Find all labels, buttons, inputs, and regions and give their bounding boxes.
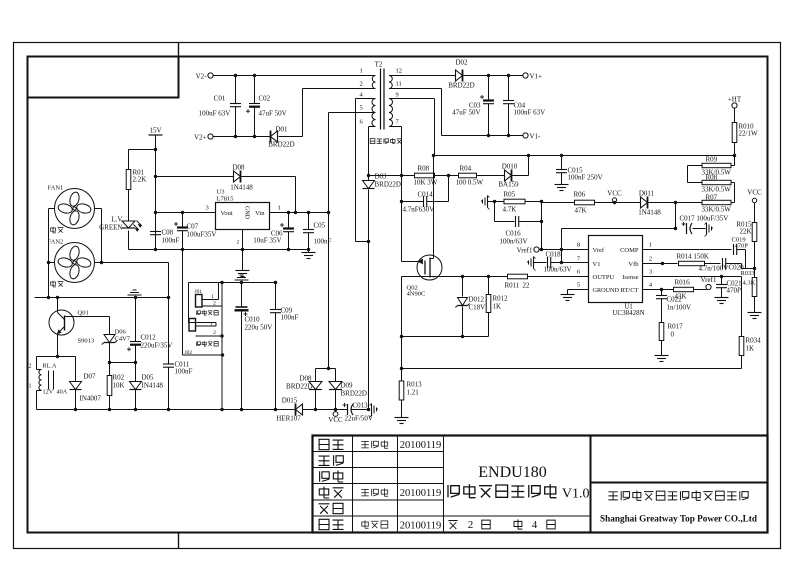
svg-text:D02: D02 (455, 59, 468, 67)
svg-text:1: 1 (360, 68, 363, 75)
svg-text:100n/63V: 100n/63V (544, 266, 572, 274)
regulator U3 L7815 (216, 203, 270, 230)
wire source row (402, 276, 508, 278)
capacitor C016 (494, 202, 496, 222)
wire T2 pin6 to D03 (369, 126, 376, 128)
svg-text:33K/0.5W: 33K/0.5W (702, 206, 732, 214)
wire V1 pin7 (562, 262, 589, 264)
title 开关电源原理图 (448, 485, 459, 497)
ground U1 pin5 (561, 294, 575, 296)
title block table (313, 436, 768, 533)
svg-text:IN4148: IN4148 (142, 382, 164, 390)
terminal Vref1 left (534, 247, 539, 252)
svg-text:COMP: COMP (620, 247, 639, 254)
terminal VCC mid (595, 202, 641, 204)
svg-text:1: 1 (29, 384, 32, 390)
svg-text:100nF 250V: 100nF 250V (568, 174, 603, 182)
svg-text:FAN1: FAN1 (48, 185, 64, 192)
zener D06 (109, 317, 111, 335)
J01 enclosure (188, 283, 190, 323)
svg-text:V1+: V1+ (530, 73, 543, 81)
svg-text:1N4148: 1N4148 (638, 209, 661, 217)
resistor R016 (674, 287, 694, 291)
svg-text:Isense: Isense (622, 274, 638, 281)
title row label 校对 (320, 471, 330, 481)
wire rail-249 to J-socket bypass (182, 250, 184, 356)
terminal V1- (523, 133, 528, 138)
wire Isense row (643, 276, 742, 278)
title row label 标化 (319, 504, 330, 514)
capacitor C017 (675, 203, 677, 229)
svg-text:C07: C07 (187, 223, 199, 231)
svg-text:D03: D03 (375, 173, 388, 181)
svg-text:C012: C012 (141, 334, 157, 342)
svg-text:47uF 50V: 47uF 50V (452, 109, 480, 117)
ground C05 (302, 252, 316, 254)
capacitor C02 (254, 76, 256, 104)
op-amp U1 UC38428N (589, 236, 643, 303)
svg-text:D07: D07 (84, 373, 97, 381)
svg-text:100nF 63V: 100nF 63V (199, 110, 231, 118)
svg-text:R016: R016 (675, 279, 691, 287)
resistor R09 (702, 163, 731, 167)
svg-text:BRD22D: BRD22D (286, 383, 312, 391)
title row label 批准 (319, 519, 329, 529)
ground R017 (655, 355, 669, 357)
svg-text:1K: 1K (493, 303, 502, 311)
wire D01 to T2 pin2 (279, 136, 303, 138)
svg-text:2: 2 (213, 301, 216, 307)
wire V2- to T2 pin1 (214, 75, 376, 77)
svg-text:4.7nF630V: 4.7nF630V (403, 206, 435, 214)
LED L.V GREEN (128, 190, 130, 222)
capacitor C020 (705, 263, 721, 265)
wire zigzag chain (688, 165, 703, 167)
svg-text:2: 2 (649, 256, 652, 263)
label 风扇 FAN2 (51, 281, 56, 287)
ground U3 (236, 270, 250, 272)
resistor R01 (129, 149, 156, 151)
svg-text:D01: D01 (275, 126, 288, 134)
svg-text:Q01: Q01 (78, 310, 89, 317)
svg-text:C18V: C18V (469, 304, 486, 312)
svg-text:R05: R05 (504, 191, 516, 199)
svg-text:D015: D015 (282, 397, 298, 405)
wire node (110, 362, 136, 364)
svg-text:12: 12 (396, 68, 403, 75)
svg-text:10K: 10K (113, 382, 125, 390)
svg-text:J01: J01 (195, 289, 203, 295)
diode D010 (477, 175, 505, 177)
svg-text:20100119: 20100119 (400, 488, 442, 499)
svg-text:D06: D06 (115, 329, 127, 336)
svg-text:9: 9 (396, 92, 399, 99)
页 (547, 520, 555, 529)
svg-text:C013: C013 (353, 402, 369, 410)
svg-text:20100119: 20100119 (400, 521, 442, 532)
wire Vref to pin8 (539, 249, 589, 251)
resistor R015 (754, 203, 756, 222)
wire gate (401, 176, 403, 262)
svg-text:S9013: S9013 (78, 338, 95, 345)
wire V2+ to D01 (214, 136, 271, 138)
svg-text:C017 100uF/35V: C017 100uF/35V (680, 215, 729, 223)
wire Vfb row (643, 263, 678, 265)
svg-text:2.2K: 2.2K (133, 176, 147, 184)
wire Vout row (156, 212, 216, 214)
svg-text:100uF35V: 100uF35V (187, 231, 217, 239)
svg-text:5: 5 (360, 105, 363, 112)
svg-text:BA159: BA159 (498, 181, 519, 189)
svg-text:4.7n/100V: 4.7n/100V (699, 265, 729, 273)
wire COMP row (643, 249, 732, 251)
svg-text:ENDU180: ENDU180 (478, 464, 546, 481)
svg-text:22/1W: 22/1W (739, 130, 758, 138)
svg-text:C016: C016 (506, 230, 522, 238)
diode D015 (296, 404, 303, 415)
svg-text:R06: R06 (574, 191, 586, 199)
svg-text:D08: D08 (232, 164, 245, 172)
svg-text:R08: R08 (418, 165, 430, 173)
terminal V2- (208, 73, 213, 78)
diode D08 1N4148 (156, 176, 234, 178)
wire bottom rail (37, 409, 295, 411)
capacitor C04 (508, 76, 510, 101)
svg-text:GROUND: GROUND (593, 287, 620, 294)
wire pin5 ground (568, 289, 589, 291)
svg-text:BRD22D: BRD22D (375, 181, 401, 189)
svg-text:C010: C010 (245, 316, 261, 324)
capacitor C05 (308, 213, 310, 230)
svg-text:VCC: VCC (747, 189, 762, 197)
svg-text:D012: D012 (469, 296, 485, 304)
svg-text:100nF 63V: 100nF 63V (514, 109, 546, 117)
chassis symbol C013 (371, 404, 373, 416)
svg-text:100 0.5W: 100 0.5W (456, 179, 484, 187)
wire bottom rail of regulator (129, 249, 309, 251)
svg-text:1: 1 (649, 242, 652, 249)
wire pin7 down to R08 node (389, 126, 402, 128)
chassis symbol C018 left (533, 257, 535, 269)
transistor Q02 MOSFET (417, 255, 442, 280)
svg-text:100nF: 100nF (175, 368, 193, 376)
svg-text:8: 8 (577, 242, 580, 249)
svg-text:1: 1 (278, 205, 281, 212)
chassis symbol R05 left (487, 196, 489, 208)
resistor R010 (734, 109, 736, 123)
svg-text:0: 0 (671, 331, 675, 339)
svg-text:R02: R02 (113, 374, 125, 382)
svg-text:Vref1: Vref1 (517, 247, 533, 255)
svg-text:3: 3 (649, 269, 652, 276)
svg-text:2: 2 (29, 364, 32, 370)
svg-text:V1.0: V1.0 (562, 487, 590, 502)
svg-text:R07: R07 (706, 194, 718, 202)
capacitor C012 (135, 298, 137, 342)
wire (435, 175, 459, 177)
wire T2 pin4 (356, 98, 376, 100)
terminal VCC bottom (335, 410, 337, 412)
svg-text:Shanghai Greatway Top Power CO: Shanghai Greatway Top Power CO.,Ltd (600, 514, 757, 524)
resistor R034 (739, 337, 744, 356)
wire fan right rail (95, 208, 102, 210)
node to divider (741, 264, 743, 269)
svg-text:L.V: L.V (111, 216, 122, 224)
connector J02 (189, 319, 196, 332)
svg-text:100nF: 100nF (314, 238, 332, 246)
chassis symbol C017 right (706, 223, 708, 235)
svg-text:T2: T2 (375, 61, 383, 69)
capacitor C010 (241, 283, 243, 307)
wire HV bus (435, 155, 735, 157)
wire Isense to R034 (741, 277, 743, 337)
wire long sense return y=368 (402, 368, 742, 370)
svg-text:1: 1 (211, 294, 214, 300)
svg-text:V1-: V1- (530, 133, 542, 141)
capacitor C022 (661, 290, 663, 296)
capacitor C018 (534, 262, 547, 264)
svg-text:J02: J02 (185, 350, 193, 356)
inner border frame (28, 57, 768, 533)
resistor R011 (508, 274, 528, 279)
label 风扇插座 J01 (196, 311, 200, 315)
svg-text:2: 2 (213, 330, 216, 336)
resistor R07 (702, 200, 731, 204)
svg-text:Vin: Vin (255, 210, 265, 217)
svg-text:GND: GND (244, 206, 250, 220)
terminal V1+ (523, 73, 528, 78)
svg-text:R09: R09 (706, 156, 718, 164)
svg-text:470P: 470P (735, 243, 749, 250)
svg-text:V2-: V2- (196, 73, 208, 81)
wire 15V rail (155, 135, 157, 250)
resistor R012 (488, 277, 490, 295)
svg-text:BRD22D: BRD22D (448, 82, 474, 90)
wire C010 rail (189, 282, 276, 284)
svg-text:470P: 470P (727, 287, 742, 295)
wire fan to J01 (95, 262, 169, 264)
title row label 审核 (319, 487, 329, 499)
svg-text:D05: D05 (142, 374, 155, 382)
svg-text:100n/63V: 100n/63V (500, 238, 528, 246)
页 (482, 520, 490, 529)
svg-text:220u 50V: 220u 50V (245, 324, 273, 332)
svg-text:D010: D010 (502, 163, 518, 171)
capacitor C019 (733, 244, 735, 255)
svg-text:220uF/35V: 220uF/35V (141, 342, 173, 350)
wire T2 pin5 (329, 112, 376, 114)
wire Q01 base (65, 316, 110, 318)
diode D011 (641, 197, 648, 208)
name 刘纪周 row1 (361, 441, 369, 448)
共 (514, 519, 522, 529)
svg-text:V1: V1 (593, 261, 601, 268)
svg-text:2: 2 (468, 519, 474, 531)
ground C021 (715, 297, 729, 299)
zener D012 (462, 277, 464, 297)
svg-text:RL.A: RL.A (43, 363, 57, 370)
svg-text:C05: C05 (314, 222, 326, 230)
top-left reference box (28, 57, 179, 98)
capacitor C07 (182, 213, 184, 228)
svg-text:R013: R013 (407, 381, 423, 389)
wire pin11 to V1- (389, 88, 442, 90)
svg-text:R011: R011 (505, 282, 520, 290)
svg-text:100nF: 100nF (162, 237, 180, 245)
svg-text:VCC: VCC (607, 190, 622, 198)
svg-text:1K: 1K (746, 345, 755, 353)
transistor Q01 (49, 310, 74, 335)
svg-text:4: 4 (532, 519, 538, 531)
resistor R033 (752, 278, 757, 297)
svg-text:20100119: 20100119 (400, 440, 442, 451)
title row label 设计 (319, 439, 329, 449)
ground R013 (395, 417, 409, 419)
capacitor C011 (168, 298, 170, 364)
diode D02 (456, 70, 463, 81)
frame tick bottom (178, 533, 180, 549)
svg-text:GREEN: GREEN (99, 224, 122, 232)
svg-text:R034: R034 (746, 337, 762, 345)
svg-text:12V: 12V (43, 389, 54, 396)
wire sense row y=336 (402, 336, 489, 338)
capacitor C03 (488, 76, 490, 101)
svg-text:22: 22 (523, 282, 531, 290)
svg-text:22uF/50V: 22uF/50V (345, 415, 373, 423)
wire RT/CT row (643, 289, 674, 291)
svg-text:C01: C01 (214, 95, 226, 103)
svg-text:FAN2: FAN2 (48, 239, 64, 246)
svg-text:33K/0.5W: 33K/0.5W (702, 169, 732, 177)
svg-text:33K/0.5W: 33K/0.5W (702, 186, 732, 194)
resistor R05 (488, 201, 504, 203)
svg-text:D011: D011 (639, 190, 655, 198)
wire pin12 to D02 (389, 75, 456, 77)
wire C017 riser (561, 229, 563, 263)
svg-text:R012: R012 (493, 295, 509, 303)
resistor R014 (679, 261, 705, 265)
resistor R017 (659, 323, 664, 341)
label 风扇 FAN1 (51, 227, 56, 233)
resistor R02 (107, 376, 112, 396)
label 风扇插座 J02 (196, 342, 200, 346)
svg-text:10K 3W: 10K 3W (414, 179, 438, 187)
terminal V2+ (208, 134, 213, 139)
svg-text:1n/100V: 1n/100V (667, 304, 692, 312)
svg-text:11: 11 (396, 81, 402, 88)
capacitor C08 (150, 231, 161, 233)
resistor R04 (459, 173, 477, 178)
wire rail B (35, 297, 169, 299)
第 (448, 521, 457, 529)
svg-text:22K: 22K (739, 228, 751, 236)
svg-text:Vref: Vref (593, 247, 605, 254)
ground C015 (555, 184, 569, 186)
fan FAN1 (55, 189, 95, 229)
capacitor C021 (721, 277, 723, 285)
wire pin9 to bus (389, 98, 435, 100)
svg-text:2: 2 (360, 81, 363, 88)
capacitor C014 (400, 200, 403, 203)
svg-text:15V: 15V (149, 127, 161, 135)
svg-text:L7815: L7815 (217, 196, 234, 203)
svg-text:D08: D08 (299, 375, 312, 383)
svg-text:BRD22D: BRD22D (268, 141, 294, 149)
svg-text:C022: C022 (667, 296, 683, 304)
svg-text:OUTPU: OUTPU (593, 274, 615, 281)
wire Vin row (270, 212, 329, 214)
svg-text:V2+: V2+ (194, 134, 207, 142)
diodes D08 D09 pair (327, 367, 330, 370)
capacitor C06 (288, 213, 290, 229)
diode D01 (271, 131, 278, 142)
capacitor C015 (561, 156, 563, 170)
relay RL.A (37, 356, 76, 358)
svg-text:47uF 50V: 47uF 50V (259, 110, 287, 118)
fan FAN2 (55, 243, 95, 283)
wire fan left rail (49, 208, 55, 210)
diode D07 (75, 357, 77, 382)
svg-text:4N90C: 4N90C (407, 291, 426, 298)
svg-text:4.7K: 4.7K (503, 206, 517, 214)
resistor R08 (400, 174, 403, 177)
label 辅助变压器 (370, 139, 375, 144)
chassis ground C010 rail (240, 274, 244, 276)
capacitor C01 (235, 76, 237, 104)
svg-text:3: 3 (206, 205, 209, 212)
diode D05 (130, 382, 142, 390)
svg-text:2: 2 (237, 240, 240, 246)
svg-text:D09: D09 (341, 382, 354, 390)
diode D03 (363, 181, 375, 189)
svg-text:Vout: Vout (221, 210, 233, 217)
name 刘纪周 row4 (361, 489, 369, 496)
svg-text:10uF 35V: 10uF 35V (253, 237, 281, 245)
svg-text:C08: C08 (162, 229, 174, 237)
svg-text:Vfb: Vfb (628, 261, 638, 268)
ground R033 (748, 312, 762, 314)
wire MOSFET drain (433, 156, 435, 257)
svg-text:C014: C014 (418, 191, 434, 199)
svg-text:4.3K: 4.3K (743, 280, 756, 287)
name 徐德进 row6 (362, 520, 369, 528)
terminal Vref1 right (706, 284, 711, 289)
chassis ground rail B (133, 289, 137, 291)
resistor R013 (399, 381, 404, 400)
svg-text:R014 150K: R014 150K (677, 253, 709, 261)
capacitor C09 (275, 283, 277, 310)
resistor R06 (542, 202, 575, 204)
svg-text:R033: R033 (741, 270, 755, 277)
connector J01 (196, 295, 203, 308)
svg-text:Vref1: Vref1 (701, 276, 717, 284)
svg-text:C02: C02 (259, 95, 271, 103)
resistor R08 33K (702, 180, 731, 184)
svg-text:+HT: +HT (728, 96, 742, 104)
svg-text:R04: R04 (460, 165, 472, 173)
svg-text:BRD22D: BRD22D (341, 390, 367, 398)
wire J01 pin2 riser (221, 283, 223, 410)
svg-text:C4V7: C4V7 (115, 336, 131, 343)
svg-text:100nF: 100nF (281, 314, 299, 322)
capacitor C013 (347, 404, 349, 415)
svg-text:UC38428N: UC38428N (612, 309, 644, 317)
svg-text:RT/CT: RT/CT (620, 287, 638, 294)
svg-text:R017: R017 (668, 323, 684, 331)
svg-text:40A: 40A (57, 389, 68, 396)
svg-text:5: 5 (577, 282, 580, 289)
svg-text:VCC: VCC (328, 416, 343, 424)
